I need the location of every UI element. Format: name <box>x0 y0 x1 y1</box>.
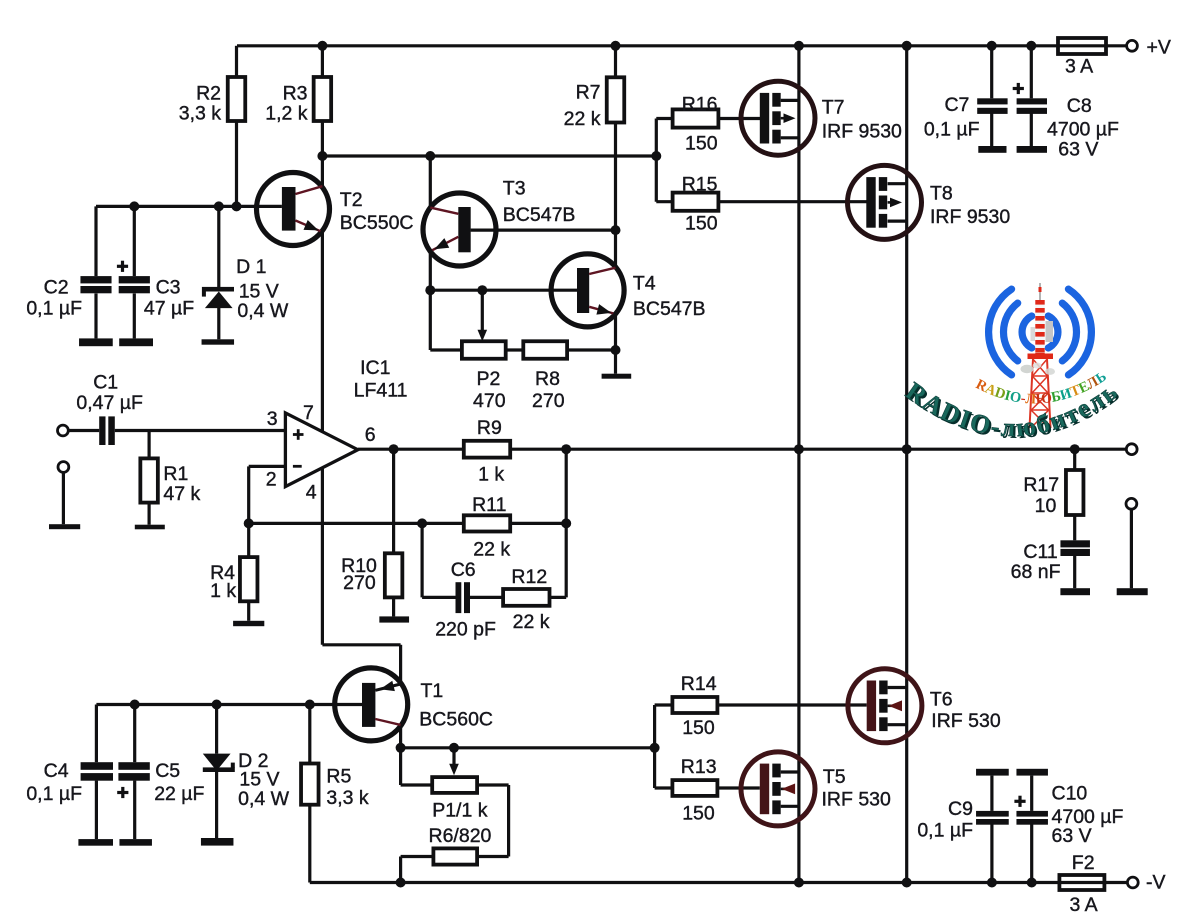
svg-text:IRF 530: IRF 530 <box>822 789 892 811</box>
svg-text:150: 150 <box>682 803 715 825</box>
svg-text:C5: C5 <box>155 760 180 782</box>
svg-text:22 k: 22 k <box>513 611 550 633</box>
svg-text:P1/1 k: P1/1 k <box>432 799 488 821</box>
svg-text:T4: T4 <box>633 273 656 295</box>
svg-text:4: 4 <box>306 482 317 504</box>
svg-text:T8: T8 <box>930 182 953 204</box>
svg-text:T5: T5 <box>823 766 846 788</box>
svg-text:150: 150 <box>682 717 715 739</box>
svg-text:3 A: 3 A <box>1065 56 1093 78</box>
svg-text:D 1: D 1 <box>236 256 266 278</box>
svg-text:IRF 9530: IRF 9530 <box>930 206 1010 228</box>
svg-text:C10: C10 <box>1052 782 1088 804</box>
svg-text:C3: C3 <box>156 277 181 299</box>
svg-text:R5: R5 <box>326 766 351 788</box>
svg-text:47 k: 47 k <box>163 483 200 505</box>
svg-text:C6: C6 <box>451 559 476 581</box>
svg-text:T3: T3 <box>503 178 526 200</box>
svg-text:C9: C9 <box>948 798 973 820</box>
svg-text:R3: R3 <box>283 83 308 105</box>
svg-text:+V: +V <box>1147 37 1171 59</box>
svg-text:P2: P2 <box>477 368 501 390</box>
svg-text:1 k: 1 k <box>478 464 504 486</box>
svg-text:1 k: 1 k <box>210 580 236 602</box>
svg-text:IRF 9530: IRF 9530 <box>822 120 902 142</box>
svg-text:3,3 k: 3,3 k <box>326 787 369 809</box>
svg-text:T7: T7 <box>822 97 845 119</box>
svg-text:0,4 W: 0,4 W <box>238 788 290 810</box>
svg-text:R16: R16 <box>682 94 718 116</box>
svg-text:22 µF: 22 µF <box>154 783 204 805</box>
svg-text:BC547B: BC547B <box>503 204 576 226</box>
svg-text:470: 470 <box>473 390 506 412</box>
svg-text:R8: R8 <box>535 368 560 390</box>
svg-text:R6/820: R6/820 <box>429 825 492 847</box>
svg-text:270: 270 <box>343 572 376 594</box>
svg-text:3 A: 3 A <box>1070 894 1098 916</box>
svg-text:R1: R1 <box>163 463 188 485</box>
svg-text:R2: R2 <box>196 83 221 105</box>
svg-text:BC550C: BC550C <box>340 212 414 234</box>
svg-text:R11: R11 <box>472 494 506 516</box>
svg-text:R15: R15 <box>682 174 718 196</box>
svg-text:0,1 µF: 0,1 µF <box>917 820 973 842</box>
svg-text:22 k: 22 k <box>473 539 510 561</box>
svg-text:220 pF: 220 pF <box>435 618 496 640</box>
svg-text:R13: R13 <box>681 756 717 778</box>
svg-text:0,1 µF: 0,1 µF <box>924 118 980 140</box>
svg-text:3: 3 <box>267 408 278 430</box>
svg-text:150: 150 <box>685 212 718 234</box>
svg-text:10: 10 <box>1035 495 1057 517</box>
svg-text:R17: R17 <box>1023 474 1059 496</box>
svg-text:3,3 k: 3,3 k <box>179 103 222 125</box>
svg-text:R9: R9 <box>477 417 502 439</box>
svg-text:0,47 µF: 0,47 µF <box>76 392 143 414</box>
svg-text:63 V: 63 V <box>1058 139 1098 161</box>
svg-text:7: 7 <box>303 402 314 424</box>
svg-text:IRF 530: IRF 530 <box>931 710 1001 732</box>
svg-text:0,1 µF: 0,1 µF <box>26 298 82 320</box>
svg-text:68 nF: 68 nF <box>1011 561 1061 583</box>
svg-text:T2: T2 <box>340 189 363 211</box>
svg-text:1,2 k: 1,2 k <box>265 103 308 125</box>
svg-text:22 k: 22 k <box>564 108 601 130</box>
svg-text:270: 270 <box>532 390 565 412</box>
svg-text:R14: R14 <box>681 673 717 695</box>
svg-text:4700 µF: 4700 µF <box>1047 118 1119 140</box>
svg-text:C4: C4 <box>44 760 69 782</box>
svg-text:R12: R12 <box>511 566 547 588</box>
svg-text:47 µF: 47 µF <box>144 298 194 320</box>
svg-text:0,1 µF: 0,1 µF <box>26 783 82 805</box>
svg-text:63 V: 63 V <box>1052 825 1092 847</box>
svg-text:C11: C11 <box>1023 541 1057 563</box>
svg-text:T1: T1 <box>421 680 444 702</box>
svg-text:F2: F2 <box>1072 852 1095 874</box>
svg-text:LF411: LF411 <box>354 380 408 402</box>
svg-text:-V: -V <box>1146 871 1166 893</box>
svg-text:15 V: 15 V <box>239 768 279 790</box>
svg-text:R7: R7 <box>576 82 601 104</box>
svg-text:2: 2 <box>266 469 277 491</box>
svg-text:IC1: IC1 <box>360 357 390 379</box>
svg-text:C1: C1 <box>93 371 118 393</box>
svg-text:C2: C2 <box>44 277 69 299</box>
svg-text:C7: C7 <box>944 94 969 116</box>
svg-text:C8: C8 <box>1067 95 1092 117</box>
svg-text:BC560C: BC560C <box>419 709 493 731</box>
svg-text:6: 6 <box>365 424 376 446</box>
svg-text:T6: T6 <box>930 689 953 711</box>
svg-text:0,4 W: 0,4 W <box>237 300 289 322</box>
svg-text:BC547B: BC547B <box>633 298 706 320</box>
svg-text:150: 150 <box>685 133 718 155</box>
